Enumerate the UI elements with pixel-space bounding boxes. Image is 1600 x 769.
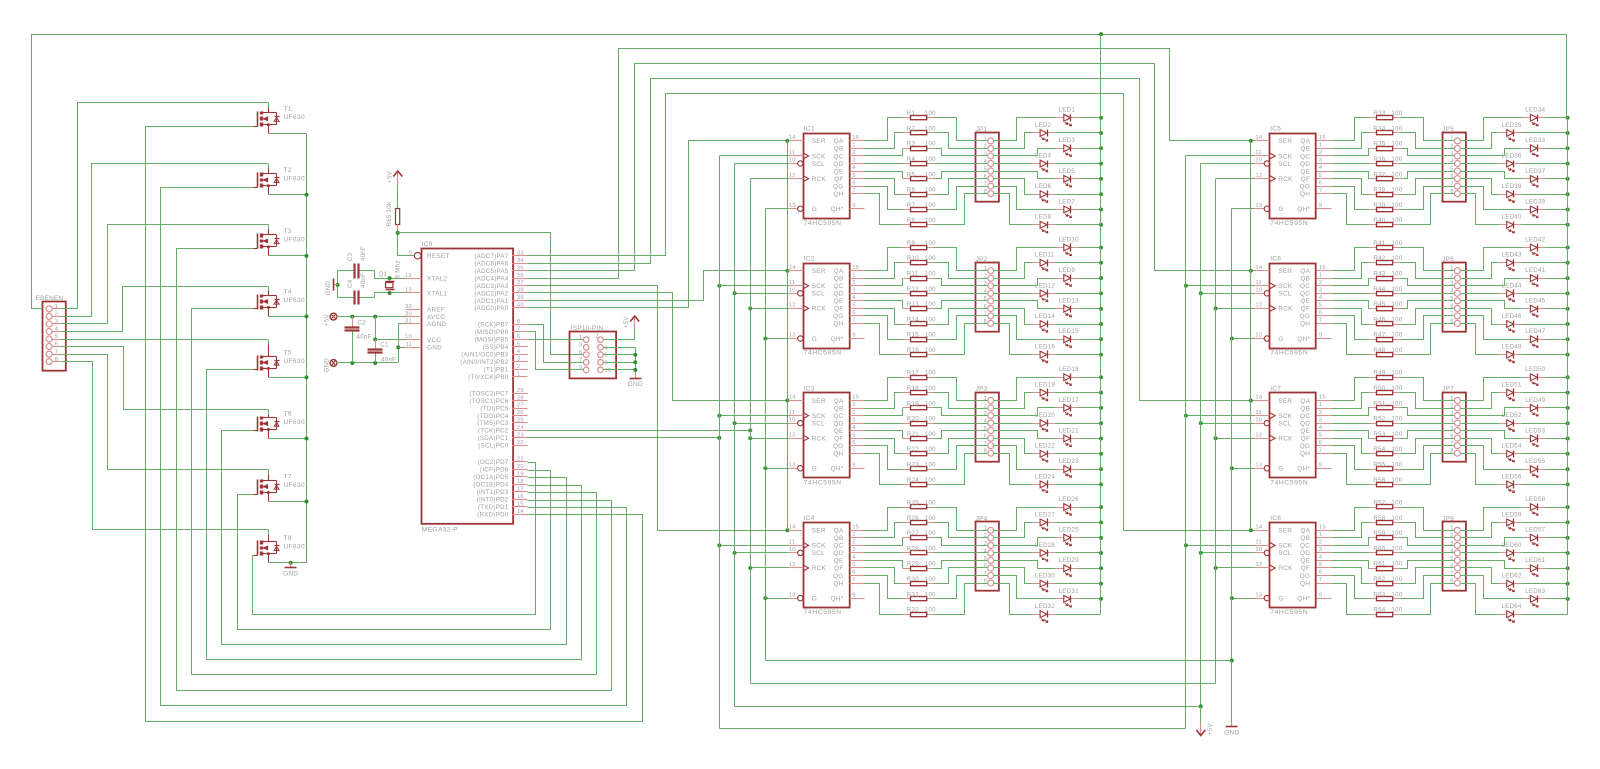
svg-text:6: 6 [852, 440, 855, 446]
svg-text:2: 2 [852, 150, 855, 156]
wire IC6 QC to R43 [1332, 279, 1370, 286]
IC7 pin 5 QF [1301, 432, 1332, 442]
svg-text:QH: QH [833, 580, 843, 587]
svg-text:QA: QA [834, 268, 844, 275]
wire JP pin 8 to LED24 [994, 454, 1033, 485]
wire IC3 QC to R19 [865, 408, 903, 416]
wire LED35 to rail [1522, 132, 1568, 134]
svg-text:R18: R18 [907, 385, 919, 392]
svg-text:QD: QD [1300, 550, 1310, 557]
svg-text:R7: R7 [907, 202, 916, 209]
svg-text:7: 7 [1319, 188, 1322, 194]
svg-text:QE: QE [1300, 168, 1310, 175]
svg-text:12: 12 [1255, 303, 1262, 309]
IC5 pin 13 G [1255, 203, 1284, 213]
svg-text:R39: R39 [1373, 202, 1385, 209]
wire PD1 MCU to T2 gate [161, 188, 627, 706]
svg-text:IC2: IC2 [804, 256, 815, 263]
resistor R19 100 [903, 400, 937, 409]
IC6 pin 10 SCL [1255, 288, 1292, 298]
resistor R26 100 [903, 515, 937, 525]
svg-text:LED55: LED55 [1525, 458, 1545, 465]
svg-text:QC: QC [833, 413, 843, 420]
IC7 pin 13 G [1255, 463, 1284, 473]
wire JP pin 4 to LED28 [994, 552, 1033, 554]
svg-text:T5: T5 [284, 350, 292, 357]
svg-text:2: 2 [984, 274, 987, 280]
ground [628, 374, 643, 389]
IC1 pin 2 QC [833, 150, 864, 160]
svg-text:3: 3 [984, 281, 987, 287]
svg-text:10: 10 [789, 547, 796, 553]
svg-text:(TOSC2)PC7: (TOSC2)PC7 [469, 390, 508, 397]
svg-text:SCK: SCK [812, 543, 826, 550]
svg-text:LED15: LED15 [1059, 328, 1079, 335]
svg-text:9: 9 [1319, 333, 1322, 339]
svg-text:R28: R28 [907, 545, 919, 552]
LED LED25 [1056, 527, 1080, 546]
svg-text:QE: QE [834, 428, 844, 435]
wire LED24 to rail [1056, 484, 1101, 486]
wire IC5 QG to R39 [1332, 187, 1370, 210]
IC4 pin 3 QD [833, 547, 864, 557]
LED LED17 [1056, 397, 1080, 416]
svg-text:6: 6 [1450, 304, 1453, 310]
wire JP pin 5 to LED61 [1461, 561, 1523, 569]
IC9 pin 31 AGND [405, 319, 447, 329]
svg-text:40nF: 40nF [360, 246, 367, 261]
svg-text:28: 28 [517, 395, 524, 401]
IC8 pin 3 QD [1300, 547, 1331, 557]
JP2 pin 1 [988, 268, 994, 274]
wire T1 source to rail [269, 133, 307, 135]
svg-text:LED22: LED22 [1035, 443, 1055, 450]
IC IC8 74HC595N box [1270, 515, 1316, 616]
connector EBENEN [36, 295, 66, 371]
svg-text:SER: SER [1278, 268, 1292, 275]
svg-text:8: 8 [984, 578, 987, 584]
svg-text:7: 7 [1319, 447, 1322, 453]
LED LED10 [1056, 236, 1080, 255]
svg-text:15: 15 [1319, 395, 1326, 401]
ISP pin 10 [598, 367, 604, 373]
resistor R54 100 [1370, 446, 1403, 456]
resistor R61 100 [1370, 561, 1403, 571]
wire R55 to JP pin 7 [1401, 446, 1455, 470]
svg-text:SCL: SCL [812, 420, 825, 427]
JP1 pin 4 [988, 161, 994, 167]
connector JP7 box [1442, 386, 1466, 462]
wire R11 to JP pin 3 [934, 279, 988, 286]
wire LED9 to rail [1079, 278, 1101, 280]
wire T3 source to rail [269, 255, 307, 257]
svg-text:R65 10k: R65 10k [386, 201, 393, 226]
IC9 pin 29 (TOSC2)PC7 [469, 388, 527, 398]
wire RCK bus to IC3 [751, 438, 789, 440]
svg-text:RESET: RESET [427, 253, 450, 260]
wire IC4 QF to R30 [865, 568, 903, 584]
wire LED32 to rail [1056, 614, 1101, 616]
wire T6 source to rail [269, 438, 307, 440]
svg-text:G: G [812, 595, 817, 602]
resistor R8 100 [903, 217, 937, 227]
wire IC2 QH to R16 [865, 324, 903, 355]
svg-text:C3: C3 [347, 252, 354, 261]
IC2 pin 11 SCK [789, 280, 827, 290]
svg-text:4: 4 [852, 295, 856, 301]
LED LED55 [1523, 458, 1546, 477]
capacitor C2 40nF [345, 320, 372, 341]
svg-text:LED33: LED33 [1525, 137, 1545, 144]
wire JP pin 1 to LED42 [1461, 248, 1523, 271]
svg-text:7: 7 [1450, 571, 1453, 577]
svg-text:15: 15 [852, 135, 859, 141]
wire JP pin 4 to LED4 [994, 163, 1033, 165]
IC8 pin 10 SCL [1255, 547, 1292, 557]
svg-text:6: 6 [984, 563, 987, 569]
LED LED16 [1033, 344, 1056, 363]
svg-text:13: 13 [789, 333, 796, 339]
svg-text:(OC1A)PD5: (OC1A)PD5 [473, 474, 509, 481]
wire IC2 QG to R15 [865, 316, 903, 340]
svg-text:11: 11 [789, 150, 796, 156]
wire EBENEN pin8 to T8 drain [61, 362, 269, 530]
svg-text:100: 100 [1391, 416, 1402, 423]
LED LED18 [1056, 366, 1080, 385]
resistor R39 100 [1370, 202, 1403, 212]
IC2 pin 12 RCK [789, 303, 827, 313]
svg-text:C4: C4 [347, 279, 354, 288]
svg-text:2: 2 [1319, 280, 1322, 286]
svg-text:4: 4 [984, 548, 988, 554]
svg-text:100: 100 [1391, 332, 1402, 339]
wire R46 to JP pin 6 [1401, 309, 1455, 325]
IC5 pin 9 QH* [1297, 203, 1331, 213]
svg-text:15: 15 [1319, 525, 1326, 531]
wire top cathode rail [32, 35, 1567, 309]
wire IC7 QC to R51 [1332, 408, 1370, 416]
IC8 pin 4 QE [1300, 555, 1331, 565]
wire R39 to JP pin 7 [1401, 187, 1455, 210]
JP4 pin 3 [988, 542, 994, 548]
svg-text:QF: QF [1301, 306, 1310, 313]
svg-text:SCL: SCL [812, 550, 825, 557]
IC8 pin 9 QH* [1297, 592, 1331, 602]
svg-text:7: 7 [1450, 441, 1453, 447]
JP1 pin 5 [988, 168, 994, 174]
wire IC8 QF to R62 [1332, 568, 1370, 584]
svg-text:6: 6 [1319, 180, 1322, 186]
IC9 pin 37 (ADC3)PA3 [474, 280, 527, 290]
IC7 pin 12 RCK [1255, 432, 1294, 442]
svg-text:5: 5 [1319, 432, 1322, 438]
svg-text:R29: R29 [907, 561, 919, 568]
IC6 pin 15 QA [1300, 265, 1331, 275]
IC7 pin 11 SCK [1255, 410, 1293, 420]
svg-text:T8: T8 [284, 535, 292, 542]
IC IC4 74HC595N box [804, 515, 850, 616]
JP8 pin 5 [1454, 557, 1460, 563]
supply GND [324, 358, 337, 373]
svg-text:QF: QF [834, 565, 843, 572]
svg-text:G: G [1278, 336, 1283, 343]
wire R27 to JP pin 3 [934, 538, 988, 546]
svg-text:4: 4 [1319, 555, 1323, 561]
svg-text:36: 36 [517, 273, 524, 279]
svg-text:6: 6 [984, 434, 987, 440]
wire R12 to JP pin 4 [934, 293, 988, 295]
svg-text:4: 4 [55, 327, 59, 333]
wire LED55 to rail [1546, 469, 1568, 471]
IC1 pin 15 QA [834, 135, 865, 145]
svg-text:74HC595N: 74HC595N [1270, 479, 1308, 486]
svg-text:T7: T7 [284, 474, 292, 481]
IC2 pin 2 QC [833, 280, 864, 290]
wire R52 to JP pin 4 [1401, 423, 1455, 425]
wire R61 to JP pin 5 [1401, 561, 1455, 569]
wire IC3 QE to R21 [865, 431, 903, 439]
wire RCK bus left [750, 179, 752, 684]
wire SCL to +5V [1200, 707, 1202, 723]
ISP pin 2 [598, 337, 604, 343]
IC4 pin 10 SCL [789, 547, 826, 557]
resistor R21 100 [903, 431, 937, 441]
svg-text:G: G [1278, 595, 1283, 602]
svg-text:8: 8 [984, 319, 987, 325]
svg-text:5: 5 [984, 166, 987, 172]
LED LED35 [1499, 122, 1522, 141]
svg-text:LED35: LED35 [1502, 122, 1522, 129]
supply +5V [623, 315, 639, 328]
wire LED18 to rail [1079, 377, 1101, 379]
svg-text:100: 100 [1391, 271, 1402, 278]
svg-text:2: 2 [517, 364, 520, 370]
wire PD4 MCU to T5 gate [207, 370, 582, 660]
wire RCK bus to IC6 [1216, 308, 1255, 310]
resistor R32 100 [903, 607, 937, 617]
svg-text:SCL: SCL [812, 161, 825, 168]
supply +5V [386, 170, 402, 184]
IC4 pin 12 RCK [789, 562, 827, 572]
svg-text:R61: R61 [1373, 561, 1385, 568]
connector ISP10-PIN [570, 325, 617, 379]
LED LED57 [1523, 527, 1546, 546]
LED LED6 [1033, 183, 1056, 202]
svg-text:11: 11 [789, 540, 796, 546]
IC9 pin 7 (MISO)PB6 [475, 327, 528, 337]
svg-text:LED44: LED44 [1502, 282, 1522, 289]
wire source rail to GND [291, 134, 307, 563]
svg-text:R52: R52 [1373, 416, 1385, 423]
svg-text:26: 26 [517, 410, 524, 416]
JP6 pin 3 [1454, 283, 1460, 289]
resistor R64 100 [1370, 607, 1403, 617]
JP5 pin 3 [1454, 153, 1460, 159]
LED LED19 [1033, 382, 1056, 401]
svg-text:7: 7 [852, 577, 855, 583]
svg-text:3: 3 [517, 356, 520, 362]
wire LED52 to rail [1522, 423, 1568, 425]
svg-text:R33: R33 [1373, 110, 1385, 117]
svg-text:5: 5 [984, 296, 987, 302]
svg-text:1: 1 [1319, 532, 1322, 538]
resistor R12 100 [903, 286, 937, 296]
EBENEN pin 7 [46, 349, 60, 357]
LED LED41 [1523, 267, 1546, 286]
wire LED19 to rail [1056, 392, 1101, 394]
IC5 pin 4 QE [1300, 165, 1331, 175]
wire R47 to JP pin 7 [1401, 316, 1455, 340]
svg-text:4: 4 [852, 165, 856, 171]
wire SCL bus to IC8 [1201, 552, 1255, 554]
svg-text:(INT0)PD2: (INT0)PD2 [477, 497, 509, 504]
svg-text:LED12: LED12 [1035, 282, 1055, 289]
wire IC4 QD to R28 [865, 552, 903, 554]
wire JP pin 6 to LED6 [994, 179, 1033, 195]
svg-text:4: 4 [852, 425, 856, 431]
svg-text:GND: GND [283, 570, 298, 577]
svg-text:(ICP)PD6: (ICP)PD6 [480, 467, 509, 474]
IC1 pin 5 QF [834, 173, 864, 183]
svg-text:8: 8 [984, 449, 987, 455]
LED LED38 [1499, 183, 1522, 202]
IC9 pin 25 (TMS)PC3 [477, 418, 527, 428]
IC9 pin 34 (ADC6)PA6 [474, 258, 527, 268]
svg-text:1: 1 [1450, 526, 1453, 532]
wire IC1 QB to R2 [865, 133, 903, 149]
svg-text:1: 1 [1450, 136, 1453, 142]
IC8 pin 12 RCK [1255, 562, 1294, 572]
wire IC7 QF to R54 [1332, 439, 1370, 454]
svg-text:37: 37 [517, 280, 524, 286]
resistor R25 100 [903, 500, 937, 509]
wire PA1 to IC2 SER [528, 271, 789, 301]
svg-text:7: 7 [984, 441, 987, 447]
JP3 pin 6 [988, 435, 994, 441]
svg-text:100: 100 [925, 110, 936, 117]
svg-text:7: 7 [984, 182, 987, 188]
resistor R49 100 [1370, 370, 1403, 380]
wire G bus right [1231, 209, 1233, 661]
svg-text:UF630: UF630 [284, 543, 306, 550]
LED LED31 [1056, 588, 1080, 607]
wire JP pin 7 to LED55 [1461, 446, 1523, 470]
wire LED57 to rail [1546, 537, 1568, 539]
wire R6 to JP pin 6 [934, 179, 988, 195]
svg-text:QE: QE [1300, 428, 1310, 435]
resistor R31 100 [903, 591, 937, 600]
IC9 pin 27 (TDI)PC5 [480, 403, 527, 413]
svg-text:11: 11 [789, 280, 796, 286]
svg-text:100: 100 [925, 141, 936, 148]
svg-text:AVCC: AVCC [427, 314, 445, 321]
svg-text:4: 4 [1319, 425, 1323, 431]
LED LED3 [1056, 137, 1079, 156]
svg-text:11: 11 [1255, 410, 1262, 416]
svg-text:3: 3 [852, 547, 855, 553]
wire SER chain left [787, 141, 789, 531]
IC4 pin 11 SCK [789, 540, 827, 550]
JP3 pin 1 [988, 398, 994, 404]
svg-text:QF: QF [1301, 436, 1310, 443]
IC6 pin 13 G [1255, 333, 1284, 343]
resistor R50 100 [1370, 385, 1403, 395]
wire EBENEN pin2 to T2 drain [61, 164, 269, 317]
svg-text:5: 5 [852, 562, 855, 568]
svg-text:12: 12 [789, 562, 796, 568]
wire IC5 QF to R38 [1332, 179, 1370, 195]
svg-text:40nF: 40nF [360, 273, 367, 288]
ISP pin 7 [583, 360, 589, 366]
wire R16 to JP pin 8 [934, 324, 988, 355]
wire R63 to JP pin 7 [1401, 576, 1455, 599]
svg-text:LED57: LED57 [1525, 527, 1545, 534]
LED LED15 [1056, 328, 1080, 347]
svg-text:7: 7 [984, 571, 987, 577]
svg-text:LED38: LED38 [1502, 183, 1522, 190]
wire JP pin 2 to LED27 [994, 523, 1033, 538]
svg-text:3: 3 [852, 158, 855, 164]
svg-text:100: 100 [925, 240, 936, 247]
svg-text:LED60: LED60 [1502, 542, 1522, 549]
resistor R6 100 [903, 187, 937, 197]
JP2 pin 2 [988, 275, 994, 281]
svg-text:12: 12 [789, 303, 796, 309]
IC9 pin 38 (ADC2)PA2 [474, 288, 527, 298]
wire IC7 QA to R49 [1332, 378, 1370, 401]
svg-text:5: 5 [579, 350, 582, 356]
svg-text:15: 15 [517, 501, 524, 507]
wire IC5 QD to R36 [1332, 163, 1370, 165]
svg-text:QB: QB [834, 276, 844, 283]
svg-text:LED56: LED56 [1502, 473, 1522, 480]
svg-text:(MOSI)PB5: (MOSI)PB5 [475, 337, 509, 344]
svg-text:QA: QA [834, 138, 844, 145]
svg-text:1: 1 [984, 266, 987, 272]
svg-text:100: 100 [925, 286, 936, 293]
svg-text:LED50: LED50 [1525, 366, 1545, 373]
wire R40 to JP pin 8 [1401, 194, 1455, 225]
IC9 pin 15 (TXD)PD1 [478, 501, 528, 511]
LED LED14 [1033, 313, 1056, 332]
IC2 pin 7 QH [833, 318, 864, 328]
JP7 pin 8 [1454, 450, 1460, 456]
JP2 pin 7 [988, 313, 994, 319]
LED LED23 [1056, 458, 1080, 477]
LED LED59 [1499, 511, 1522, 530]
wire R22 to JP pin 6 [934, 439, 988, 454]
JP7 pin 2 [1454, 405, 1460, 411]
svg-text:R8: R8 [907, 217, 916, 224]
wire LED63 to rail [1546, 598, 1568, 600]
wire JP pin 8 to LED40 [1461, 194, 1499, 225]
svg-text:LED6: LED6 [1035, 183, 1052, 190]
wire ISP2 to +5V [604, 324, 635, 340]
IC6 pin 2 QC [1300, 280, 1331, 290]
svg-text:1: 1 [852, 143, 855, 149]
IC9 pin 32 AREF [405, 304, 445, 314]
svg-text:GND: GND [628, 381, 643, 388]
wire R3 to JP pin 3 [934, 149, 988, 156]
IC4 pin 14 SER [789, 525, 826, 535]
wire JP pin 4 to LED52 [1461, 423, 1499, 425]
svg-text:R23: R23 [907, 462, 919, 469]
svg-text:LED47: LED47 [1525, 328, 1545, 335]
IC9 pin 28 (TOSC1)PC6 [469, 395, 527, 405]
svg-text:7: 7 [1450, 311, 1453, 317]
svg-text:100: 100 [1391, 316, 1402, 323]
wire PD3 MCU to T4 gate [192, 309, 597, 675]
